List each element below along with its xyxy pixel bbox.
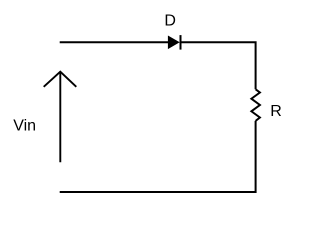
svg-text:R: R xyxy=(270,103,282,120)
svg-text:Vin: Vin xyxy=(13,118,36,135)
wire: resistor bottom to bottom-right corner, along bottom rail to Vin node xyxy=(60,121,256,192)
wire: diode cathode to top-right corner, down to resistor top xyxy=(180,42,256,89)
source arrow Vin (upward arrow) xyxy=(44,72,77,163)
diode D xyxy=(168,35,181,50)
resistor R xyxy=(251,89,260,121)
svg-text:D: D xyxy=(164,13,176,30)
label R xyxy=(270,103,282,120)
wire: top rail, Vin node to diode anode xyxy=(60,41,169,43)
label D xyxy=(164,13,176,30)
label Vin xyxy=(13,118,36,135)
